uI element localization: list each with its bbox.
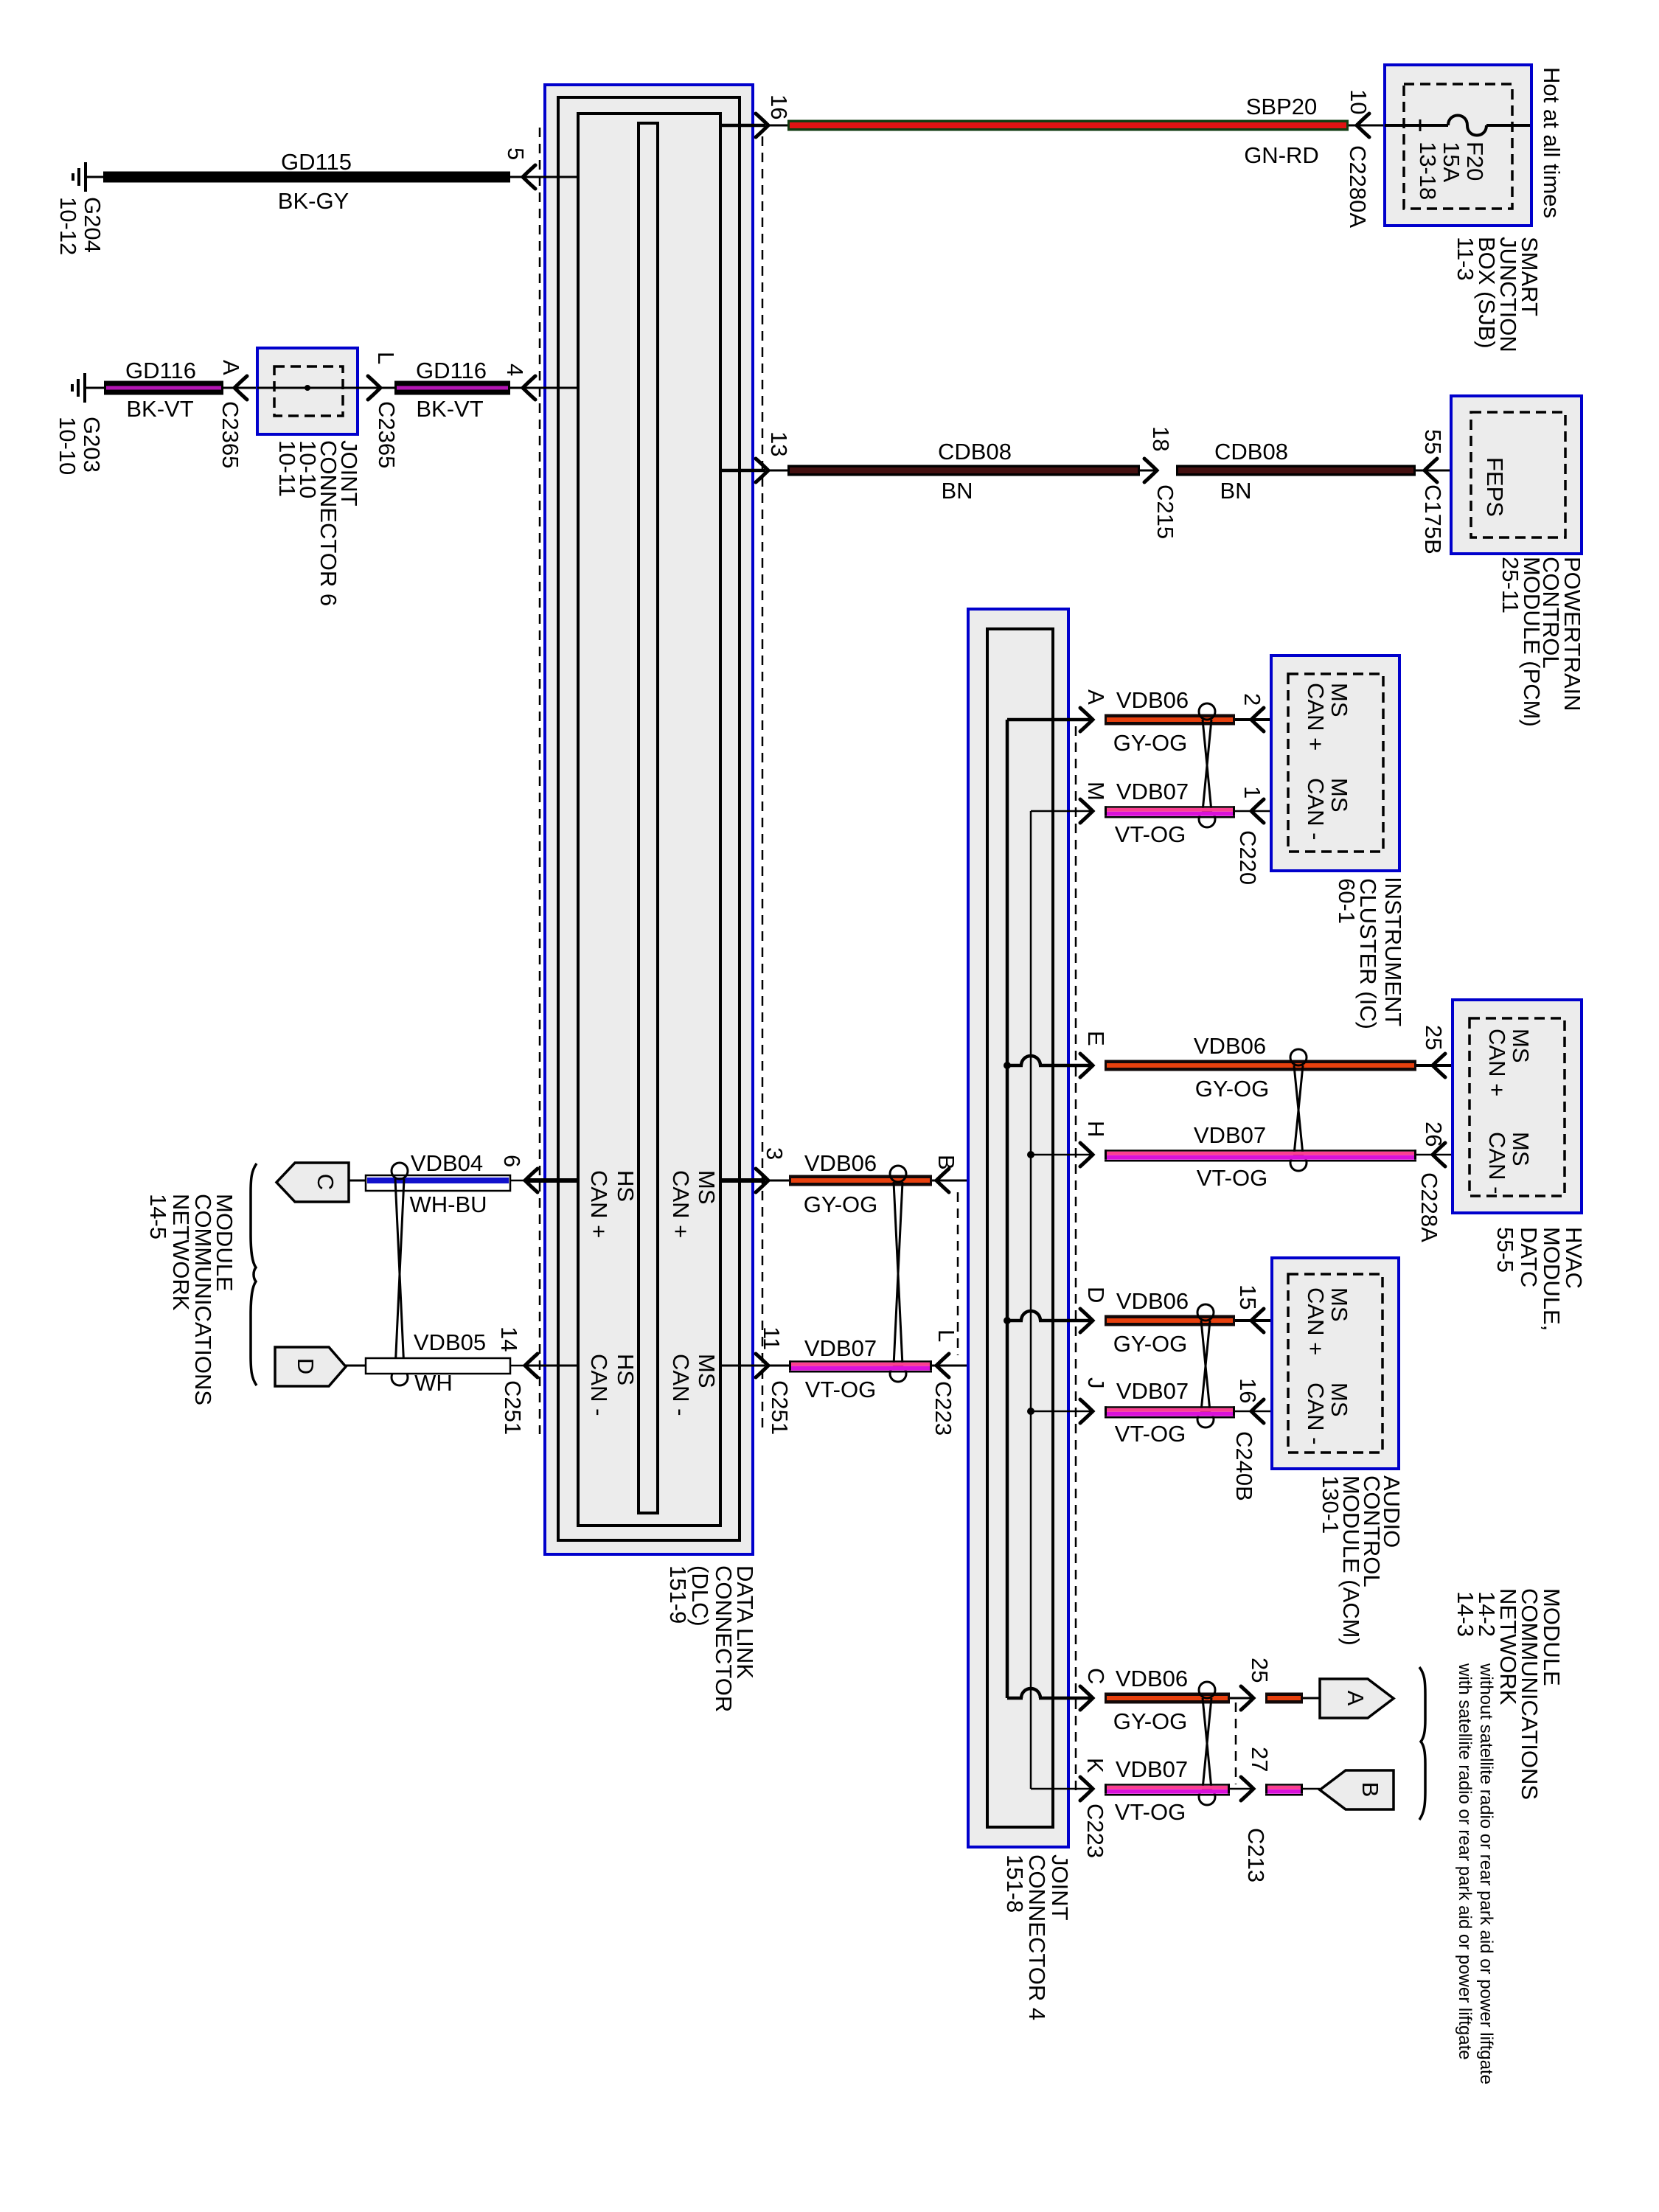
twisted pair D/J: [1197, 1304, 1214, 1321]
svg-text:DATC: DATC: [1516, 1227, 1542, 1287]
svg-text:VDB05: VDB05: [414, 1329, 486, 1355]
wire VDB06 GY-OG to C213: [1105, 1693, 1230, 1697]
JC6 junction dot: [305, 385, 310, 391]
wire GD116 BK-VT right: [358, 387, 394, 389]
HVAC pin 26 arrow: [1433, 1143, 1445, 1166]
svg-text:GY-OG: GY-OG: [1195, 1076, 1270, 1102]
svg-text:3: 3: [762, 1147, 787, 1160]
SJB inner dashed box: [1404, 84, 1512, 209]
pin B internal wire to bus1: [968, 1179, 1007, 1183]
ground G204: [84, 162, 87, 192]
pin 11 arrow: [756, 1354, 768, 1377]
svg-text:BN: BN: [1220, 478, 1251, 504]
wire VDB07 VT-OG to IC: [1105, 806, 1235, 808]
svg-text:VDB06: VDB06: [1194, 1033, 1266, 1059]
svg-text:10-10: 10-10: [55, 417, 80, 475]
svg-text:11-3: 11-3: [1453, 237, 1478, 281]
svg-text:VDB07: VDB07: [1116, 1378, 1189, 1404]
svg-text:C223: C223: [931, 1381, 956, 1436]
svg-text:55-5: 55-5: [1492, 1227, 1518, 1273]
svg-text:5: 5: [503, 147, 529, 160]
pin E arrow: [1080, 1054, 1093, 1077]
svg-text:CAN -: CAN -: [1303, 1382, 1329, 1444]
SJB pin 10 arrow: [1357, 114, 1369, 137]
svg-text:GY-OG: GY-OG: [1113, 1331, 1188, 1357]
svg-text:C: C: [1083, 1668, 1109, 1684]
svg-text:M: M: [1083, 782, 1109, 801]
JC4 pin J wire: [1027, 1408, 1034, 1415]
svg-text:10-12: 10-12: [55, 197, 81, 255]
C213 pin 25 arrow: [1241, 1686, 1253, 1710]
svg-text:14: 14: [496, 1326, 522, 1352]
svg-text:C240B: C240B: [1231, 1431, 1257, 1501]
wire GD116 BK-VT left: [85, 387, 104, 389]
svg-text:B: B: [1357, 1782, 1383, 1798]
svg-text:25: 25: [1247, 1658, 1273, 1683]
svg-text:GN-RD: GN-RD: [1244, 142, 1319, 168]
wire VDB06 stub to A flag: [1265, 1693, 1303, 1697]
JC4 pin C wire (hops bus2): [1007, 1697, 1023, 1700]
wire VDB07 VT-OG: [768, 1365, 789, 1367]
JC4 bus1 (VDB06): [1006, 720, 1009, 1698]
wire VDB04 WH-BU: [349, 1180, 369, 1182]
svg-text:C215: C215: [1152, 484, 1178, 539]
DLC inner housing rect: [558, 97, 740, 1540]
pin D arrow: [1080, 1309, 1093, 1332]
wire CDB08 BN 2: [1176, 465, 1416, 468]
JC4 pin A wire: [1007, 718, 1093, 722]
svg-text:MS: MS: [694, 1354, 720, 1388]
svg-text:15A: 15A: [1439, 142, 1464, 182]
svg-text:WH-BU: WH-BU: [409, 1192, 487, 1217]
svg-text:CAN -: CAN -: [1484, 1132, 1510, 1194]
pin L internal wire to bus2 (hops bus1): [968, 1365, 999, 1367]
svg-text:VDB07: VDB07: [804, 1335, 877, 1361]
HVAC pin 25 arrow: [1433, 1054, 1445, 1077]
wire VDB07 stub to B flag: [1265, 1784, 1303, 1786]
connector flag D: [275, 1347, 346, 1386]
svg-text:151-8: 151-8: [1002, 1854, 1028, 1913]
AUDIO CONTROL MODULE box: [1272, 1258, 1399, 1469]
svg-text:60-1: 60-1: [1334, 878, 1360, 924]
DLC outer box: [545, 85, 753, 1554]
svg-text:without satellite radio or rea: without satellite radio or rear park aid…: [1476, 1663, 1496, 2084]
svg-text:VT-OG: VT-OG: [1197, 1165, 1267, 1191]
IC pin 2 arrow: [1251, 708, 1264, 731]
pin 3 arrow: [756, 1169, 768, 1192]
svg-text:MODULE,: MODULE,: [1539, 1227, 1565, 1331]
IC pin 1 arrow: [1251, 799, 1264, 823]
svg-text:with satellite radio or rear p: with satellite radio or rear park aid or…: [1455, 1663, 1475, 2060]
DLC pin 6 arrow: [525, 1169, 538, 1192]
svg-text:WH: WH: [414, 1370, 453, 1396]
svg-text:VT-OG: VT-OG: [805, 1377, 876, 1402]
pin M arrow: [1080, 799, 1093, 823]
svg-text:A: A: [1083, 689, 1109, 705]
svg-text:25: 25: [1421, 1025, 1447, 1050]
twisted pair VDB06/VDB07 at DLC: [890, 1166, 906, 1182]
wire SBP20 GN-RD: [768, 125, 787, 127]
svg-text:G203: G203: [79, 417, 105, 473]
IC inner dashed box: [1288, 674, 1383, 852]
twisted pair E/H: [1290, 1049, 1307, 1065]
svg-text:CAN +: CAN +: [1484, 1029, 1510, 1096]
svg-text:F20: F20: [1462, 142, 1488, 181]
svg-text:BK-VT: BK-VT: [416, 396, 483, 422]
svg-text:GY-OG: GY-OG: [804, 1192, 878, 1217]
svg-text:A: A: [1343, 1691, 1368, 1706]
svg-text:VDB07: VDB07: [1116, 1756, 1188, 1782]
wire pin 16 stub: [720, 124, 765, 128]
svg-text:1: 1: [1239, 786, 1265, 799]
wire VDB06 GY-OG to HVAC: [1105, 1060, 1416, 1064]
C215 arrow pin 18: [1144, 459, 1157, 482]
svg-text:C2365: C2365: [218, 401, 243, 468]
wire VDB07 VT-OG to C213: [1105, 1784, 1230, 1786]
svg-text:6: 6: [499, 1155, 525, 1167]
twisted pair VDB04/VDB05: [392, 1163, 408, 1179]
JC4 box: [968, 609, 1068, 1847]
JC4 inner housing rect: [987, 629, 1053, 1827]
JC6 inner dashed box: [274, 366, 343, 416]
svg-text:25-11: 25-11: [1498, 557, 1523, 613]
tick: [1419, 119, 1422, 131]
svg-text:MS: MS: [1508, 1132, 1534, 1166]
pin 14 stub: [525, 1365, 579, 1367]
svg-text:L: L: [933, 1329, 959, 1342]
svg-text:BN: BN: [941, 478, 973, 504]
svg-text:D: D: [1083, 1287, 1109, 1303]
pin H arrow: [1080, 1143, 1093, 1166]
svg-text:CAN -: CAN -: [1303, 778, 1329, 840]
svg-text:MS: MS: [1326, 1382, 1352, 1417]
connector flag C: [276, 1163, 349, 1202]
svg-text:C223: C223: [1082, 1804, 1108, 1858]
svg-text:CAN -: CAN -: [668, 1354, 694, 1416]
DLC pin 14 arrow: [525, 1354, 538, 1377]
JC4 pin K wire: [1031, 1788, 1093, 1790]
pin 6 stub: [525, 1178, 579, 1183]
svg-text:A: A: [218, 360, 244, 375]
pin 3 stub: [720, 1178, 765, 1183]
svg-text:GY-OG: GY-OG: [1113, 730, 1188, 756]
svg-text:11: 11: [759, 1326, 785, 1350]
svg-text:B: B: [933, 1155, 959, 1170]
svg-text:CAN +: CAN +: [1303, 683, 1329, 751]
svg-text:C2365: C2365: [374, 401, 400, 468]
svg-text:J: J: [1083, 1377, 1109, 1389]
JC4 pin D wire (hops bus2): [1004, 1317, 1011, 1324]
svg-text:K: K: [1082, 1758, 1108, 1773]
JOINT CONNECTOR 6 box: [257, 348, 358, 434]
connector flag B: [1320, 1770, 1394, 1809]
PCM pin 55 arrow: [1425, 459, 1437, 482]
svg-text:L: L: [373, 352, 399, 364]
pin 4 arrow: [523, 376, 535, 400]
svg-text:VT-OG: VT-OG: [1115, 1799, 1186, 1825]
svg-text:15: 15: [1235, 1284, 1261, 1310]
svg-text:C251: C251: [767, 1380, 793, 1435]
INSTRUMENT CLUSTER (IC) box: [1271, 655, 1399, 871]
wire VDB05 WH: [346, 1365, 369, 1367]
DLC inner housing rect 2: [578, 114, 720, 1526]
connector face dashed line C251 left: [539, 128, 541, 1434]
svg-text:151-9: 151-9: [665, 1565, 691, 1624]
connector flag A: [1320, 1679, 1394, 1718]
svg-text:130-1: 130-1: [1318, 1475, 1343, 1534]
svg-text:14-3: 14-3: [1453, 1591, 1478, 1637]
C213 pin 27 arrow: [1241, 1777, 1253, 1801]
svg-text:C: C: [313, 1174, 338, 1190]
JC4 bus2 (VDB07): [1030, 811, 1032, 1789]
svg-text:26: 26: [1421, 1121, 1447, 1147]
JC4 pin H wire: [1027, 1151, 1034, 1158]
svg-text:VDB06: VDB06: [804, 1150, 877, 1176]
svg-text:CDB08: CDB08: [1214, 439, 1288, 465]
svg-text:18: 18: [1148, 426, 1174, 451]
twisted pair C/K: [1199, 1682, 1215, 1698]
pin C arrow: [1080, 1686, 1093, 1710]
svg-text:VT-OG: VT-OG: [1115, 821, 1186, 847]
ACM pin 15 arrow: [1251, 1309, 1264, 1332]
svg-text:MS: MS: [1508, 1029, 1534, 1063]
svg-text:BK-VT: BK-VT: [126, 396, 193, 422]
svg-text:Hot at all times: Hot at all times: [1539, 67, 1565, 218]
svg-text:INSTRUMENT: INSTRUMENT: [1380, 877, 1406, 1026]
SJB box: [1385, 65, 1531, 226]
pin 5 arrow: [523, 165, 535, 189]
svg-text:NETWORK: NETWORK: [168, 1194, 194, 1311]
svg-text:VDB06: VDB06: [1116, 1666, 1188, 1691]
twisted pair A/M: [1199, 703, 1215, 720]
PCM inner dashed box: [1471, 412, 1565, 538]
C213 dashed connector line: [1235, 1703, 1237, 1784]
C223 left dashed connector line: [957, 1192, 959, 1355]
svg-text:VDB06: VDB06: [1116, 687, 1189, 713]
svg-text:13-18: 13-18: [1415, 142, 1441, 200]
connector face dashed line C251 right: [762, 136, 764, 1434]
svg-text:MS: MS: [1326, 1287, 1352, 1322]
wire VDB06 GY-OG to IC: [1105, 714, 1235, 718]
svg-text:55: 55: [1420, 429, 1446, 454]
svg-text:HS: HS: [613, 1354, 639, 1385]
svg-text:C220: C220: [1235, 830, 1261, 885]
svg-text:MS: MS: [694, 1170, 720, 1205]
wire VDB06 GY-OG: [768, 1180, 789, 1182]
svg-text:GD115: GD115: [281, 149, 352, 175]
svg-text:G204: G204: [80, 197, 105, 253]
pin A arrow: [234, 376, 247, 400]
svg-text:14-5: 14-5: [145, 1194, 171, 1239]
svg-text:H: H: [1083, 1121, 1109, 1137]
pin 13 arrow: [756, 459, 768, 482]
svg-text:13: 13: [766, 431, 792, 456]
svg-text:GD116: GD116: [125, 358, 196, 383]
PCM box: [1451, 396, 1582, 554]
JC4 pin L arrow: [936, 1354, 949, 1377]
svg-text:FEPS: FEPS: [1482, 457, 1508, 517]
svg-text:CAN -: CAN -: [586, 1354, 612, 1416]
JC6 internal wire: [257, 387, 358, 389]
svg-text:JOINT: JOINT: [1047, 1854, 1073, 1921]
ACM pin 16 arrow: [1251, 1399, 1264, 1423]
svg-text:CDB08: CDB08: [938, 439, 1012, 465]
svg-text:MS: MS: [1326, 778, 1352, 813]
svg-text:16: 16: [1235, 1378, 1261, 1403]
svg-text:VDB04: VDB04: [411, 1150, 483, 1176]
svg-text:C175B: C175B: [1420, 484, 1446, 554]
ACM inner dashed box: [1288, 1274, 1382, 1453]
HVAC inner dashed box: [1470, 1018, 1565, 1196]
svg-text:E: E: [1083, 1031, 1109, 1046]
svg-text:C2280A: C2280A: [1345, 145, 1371, 228]
pin L arrow: [368, 376, 380, 400]
HVAC MODULE box: [1453, 1000, 1582, 1213]
svg-text:CAN +: CAN +: [586, 1170, 612, 1238]
ground G203: [83, 373, 86, 403]
svg-text:GY-OG: GY-OG: [1113, 1708, 1188, 1734]
svg-text:SBP20: SBP20: [1246, 94, 1318, 119]
svg-text:VDB06: VDB06: [1116, 1288, 1189, 1314]
pin 11 stub: [720, 1365, 765, 1367]
pin J arrow: [1080, 1399, 1093, 1423]
svg-text:CAN +: CAN +: [668, 1170, 694, 1238]
wire CDB08 BN 1: [768, 470, 787, 472]
svg-text:HS: HS: [613, 1170, 639, 1202]
svg-text:D: D: [293, 1358, 319, 1374]
brace module communications network 14-2/14-3: [1419, 1667, 1425, 1820]
JC4 pin E wire (hops bus2): [1004, 1062, 1011, 1069]
svg-text:VT-OG: VT-OG: [1115, 1421, 1186, 1447]
DLC center slot: [639, 123, 658, 1513]
wire pin 13 stub: [720, 469, 765, 473]
pin A arrow: [1080, 708, 1093, 731]
JC4 pin B arrow: [936, 1169, 949, 1192]
wire GD115 BK-GY: [86, 176, 103, 178]
svg-text:CAN +: CAN +: [1303, 1287, 1329, 1355]
fuse F20 15A: [1448, 116, 1486, 136]
svg-text:GD116: GD116: [416, 358, 487, 383]
svg-text:MS: MS: [1326, 683, 1352, 717]
svg-text:4: 4: [502, 364, 528, 376]
SJB internal wire: [1385, 124, 1448, 127]
svg-text:CONNECTOR: CONNECTOR: [711, 1565, 737, 1712]
connector face dashed line C223 right: [1075, 726, 1077, 1793]
svg-text:C228A: C228A: [1416, 1172, 1442, 1242]
svg-text:16: 16: [766, 94, 792, 119]
JC4 pin M wire: [1031, 810, 1093, 813]
svg-text:10: 10: [1346, 89, 1371, 114]
pin K arrow: [1080, 1777, 1093, 1801]
svg-text:C251: C251: [500, 1380, 526, 1435]
pin 16 arrow: [756, 114, 768, 137]
wire VDB07 VT-OG to ACM: [1105, 1406, 1235, 1408]
wire VDB07 VT-OG to HVAC: [1105, 1150, 1416, 1152]
wire VDB06 GY-OG to ACM: [1105, 1315, 1235, 1319]
svg-text:VDB07: VDB07: [1116, 779, 1189, 804]
brace module communications network 14-5: [251, 1164, 257, 1385]
svg-text:27: 27: [1247, 1747, 1273, 1772]
svg-text:BK-GY: BK-GY: [278, 188, 349, 214]
svg-text:10-11: 10-11: [274, 440, 300, 497]
svg-text:2: 2: [1239, 693, 1265, 706]
svg-text:VDB07: VDB07: [1194, 1122, 1266, 1148]
svg-text:C213: C213: [1243, 1828, 1269, 1882]
